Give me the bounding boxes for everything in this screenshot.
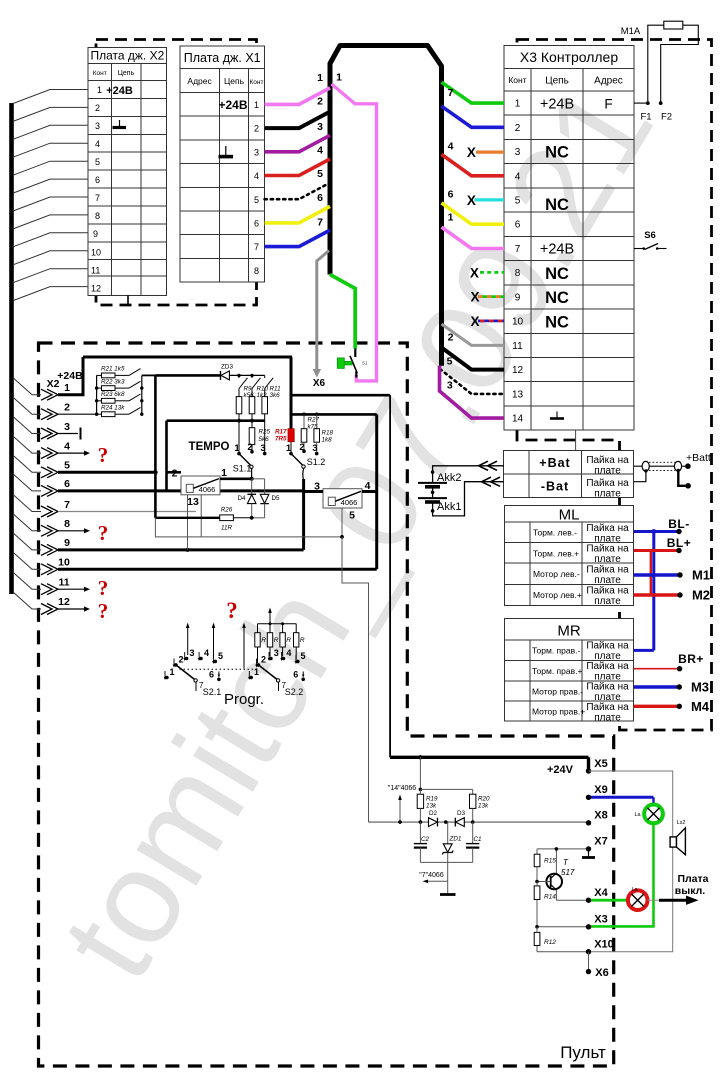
svg-text:?: ? <box>98 521 109 545</box>
diode ZD3 <box>221 363 234 380</box>
resistor R17 red <box>288 429 294 442</box>
svg-text:плате: плате <box>594 466 621 477</box>
S1.2 common vertical <box>302 479 305 550</box>
battery Akk1 <box>418 498 447 502</box>
svg-text:2: 2 <box>95 103 100 113</box>
svg-text:7: 7 <box>317 217 323 229</box>
wire X3 pin2 blue <box>442 106 505 127</box>
table X1 jog board <box>180 46 265 282</box>
resistor bank R21-R24 left rail <box>96 375 98 414</box>
wire X3 pin7 pink <box>442 227 505 248</box>
svg-text:X7: X7 <box>594 836 607 848</box>
resistor R9 <box>236 397 242 414</box>
svg-text:X6: X6 <box>313 378 326 389</box>
svg-text:F1: F1 <box>640 112 651 123</box>
speaker loop wire <box>589 771 673 952</box>
wire 4066 pin13 down <box>187 495 189 550</box>
wire BR+ red <box>634 652 704 671</box>
wire pin6 to S1.2 common <box>58 489 304 492</box>
svg-text:5: 5 <box>218 651 223 661</box>
svg-text:11: 11 <box>512 341 523 352</box>
+24V feed wire bottom <box>390 756 588 759</box>
svg-text:4066: 4066 <box>199 485 216 494</box>
svg-text:M2: M2 <box>692 588 710 603</box>
svg-text:2: 2 <box>261 655 266 665</box>
svg-text:6: 6 <box>95 175 100 185</box>
svg-text:ZD1: ZD1 <box>449 836 462 843</box>
svg-text:2: 2 <box>254 124 259 134</box>
pin11 arrow <box>58 588 84 590</box>
battery Akk2 <box>418 483 447 487</box>
svg-text:X: X <box>470 290 479 305</box>
zener ZD1 <box>447 822 449 844</box>
svg-text:M1: M1 <box>692 568 710 583</box>
svg-text:Пайка на: Пайка на <box>586 641 629 652</box>
svg-text:S1: S1 <box>362 361 368 366</box>
svg-text:NC: NC <box>545 314 569 332</box>
node X7 with ground <box>537 848 589 850</box>
svg-text:Плата: Плата <box>677 873 708 885</box>
right cable wire number labels <box>447 87 454 391</box>
svg-text:7R5: 7R5 <box>275 436 287 443</box>
svg-text:плате: плате <box>594 554 621 565</box>
svg-text:1: 1 <box>448 212 454 224</box>
svg-text:11: 11 <box>58 577 69 589</box>
svg-text:"14"4066: "14"4066 <box>388 785 416 792</box>
svg-text:2: 2 <box>317 96 323 108</box>
svg-text:Цепь: Цепь <box>224 76 245 86</box>
svg-text:6: 6 <box>209 670 214 680</box>
X2 pin number labels <box>58 382 70 608</box>
svg-text:1: 1 <box>64 382 70 394</box>
svg-text:D2: D2 <box>429 810 438 817</box>
node X9 blue wire <box>589 796 654 799</box>
wire pin9 <box>58 548 304 551</box>
svg-text:8: 8 <box>515 268 521 279</box>
svg-text:Адрес: Адрес <box>594 76 623 87</box>
svg-text:X8: X8 <box>594 810 607 822</box>
svg-text:?: ? <box>98 443 109 467</box>
svg-text:4066: 4066 <box>341 498 358 507</box>
table fill Bat <box>504 450 634 497</box>
arrow Plata vykl <box>648 899 662 901</box>
wire X3 pin8 green dashed stub <box>480 271 504 274</box>
left harness bar <box>9 103 14 594</box>
svg-text:3: 3 <box>190 648 195 658</box>
green wire X4 to lamp <box>591 899 628 902</box>
svg-text:X6: X6 <box>595 967 608 979</box>
svg-text:Пайка на: Пайка на <box>586 702 629 713</box>
green wire cable to S1 <box>330 275 355 349</box>
ZD3 line <box>155 374 220 377</box>
svg-text:R: R <box>261 637 266 644</box>
vertical V2 to pin6 line <box>165 421 168 491</box>
svg-text:2: 2 <box>448 332 454 344</box>
svg-text:Мотор лев.-: Мотор лев.- <box>533 569 580 579</box>
table MR <box>505 619 634 721</box>
ground symbol X2 row3 <box>113 120 127 128</box>
diode D4 <box>237 479 256 518</box>
resistor R20 <box>472 789 474 794</box>
svg-text:7: 7 <box>515 244 521 255</box>
resistor R24 <box>97 405 141 417</box>
wire BL+ red <box>634 536 692 595</box>
cable bundle outline <box>330 46 442 366</box>
fan wires to X2 table <box>13 90 88 301</box>
svg-text:5: 5 <box>301 651 306 661</box>
transistor T517 <box>535 847 575 900</box>
svg-text:R15: R15 <box>544 858 556 865</box>
switch S2.2 <box>248 648 306 697</box>
pin12 arrow <box>58 608 84 610</box>
wire X3 pin14 purple <box>440 366 505 418</box>
wire X3 pin6 yellow <box>442 203 505 224</box>
svg-text:BL-: BL- <box>668 517 690 531</box>
svg-text:1: 1 <box>254 667 259 677</box>
svg-text:1: 1 <box>515 99 521 110</box>
svg-text:3: 3 <box>317 121 323 133</box>
svg-text:X5: X5 <box>594 758 607 770</box>
wire pin7 thin <box>58 511 196 513</box>
svg-text:R: R <box>274 637 279 644</box>
svg-text:Плата дж. X2: Плата дж. X2 <box>91 49 165 63</box>
svg-text:Akk2: Akk2 <box>437 472 461 484</box>
svg-text:Конт: Конт <box>93 70 107 77</box>
table X3 controller <box>504 45 634 430</box>
svg-text:NC: NC <box>545 289 569 307</box>
pin8 arrow <box>58 530 84 532</box>
node X8 <box>586 820 591 825</box>
fuse M1A <box>621 21 699 103</box>
dashed border Pult panel <box>39 343 614 1066</box>
wire X3 pin9 green-orange stub <box>478 295 504 298</box>
svg-text:5: 5 <box>317 168 323 180</box>
svg-text:TEMPO: TEMPO <box>189 441 230 453</box>
resistor R25 <box>251 421 253 428</box>
svg-text:14: 14 <box>512 414 524 425</box>
programming resistors R x4 <box>255 608 305 664</box>
wire V1 to R26 <box>155 517 219 519</box>
svg-text:R27: R27 <box>308 417 320 424</box>
svg-text:4: 4 <box>254 171 259 181</box>
svg-text:6: 6 <box>448 189 454 201</box>
svg-text:+Batt.: +Batt. <box>686 452 714 464</box>
svg-text:12: 12 <box>58 596 70 608</box>
resistor R10 <box>249 397 255 414</box>
svg-text:F2: F2 <box>661 112 672 123</box>
X8 line <box>369 821 589 823</box>
wire pin5 <box>58 471 156 474</box>
svg-text:4: 4 <box>64 441 70 453</box>
svg-text:1: 1 <box>97 85 102 95</box>
svg-text:Торм. прав.-: Торм. прав.- <box>532 646 580 656</box>
capacitor C1 <box>472 822 474 843</box>
svg-text:3k6: 3k6 <box>270 392 281 399</box>
svg-text:+24В: +24В <box>218 98 247 112</box>
svg-text:S6: S6 <box>644 230 656 241</box>
red resistor R17 rail <box>290 357 293 429</box>
svg-text:выкл.: выкл. <box>675 885 705 897</box>
ground symbol X1 row3 <box>219 146 234 157</box>
branch to S1.1 pin3 <box>264 421 266 454</box>
svg-text:6: 6 <box>64 478 70 490</box>
svg-text:X3 Контроллер: X3 Контроллер <box>520 49 618 65</box>
svg-text:Мотор прав.+: Мотор прав.+ <box>532 707 585 717</box>
vertical rail V1 <box>154 375 157 517</box>
diode D2 <box>429 818 438 827</box>
svg-text:7: 7 <box>95 193 100 203</box>
switch S1.1 <box>233 442 267 479</box>
wire X1 pin4 red <box>265 159 330 176</box>
svg-text:6: 6 <box>317 192 323 204</box>
speaker Ls2 <box>670 820 685 855</box>
svg-text:1: 1 <box>170 667 175 677</box>
svg-text:517: 517 <box>561 868 575 877</box>
svg-text:плате: плате <box>594 596 621 607</box>
wire X3 pin12 black <box>442 348 505 370</box>
resistor R14 <box>534 886 540 900</box>
fan wires to X2 pins <box>13 378 41 609</box>
svg-text:4: 4 <box>448 141 454 153</box>
control line to 4066b <box>155 518 342 537</box>
long vertical to bottom +24V <box>389 395 391 757</box>
resistor R22 <box>97 378 141 390</box>
svg-text:Пульт: Пульт <box>560 1043 606 1062</box>
green wire lamp to X3 <box>591 823 654 926</box>
wire X3 pin13 dotted <box>440 369 504 394</box>
svg-text:S1.1: S1.1 <box>233 464 252 474</box>
svg-text:3: 3 <box>515 147 521 158</box>
svg-text:ML: ML <box>559 507 580 524</box>
svg-text:ZD3: ZD3 <box>221 363 233 370</box>
IC 4066 second <box>314 480 371 522</box>
node 14 4066 feed <box>419 757 421 789</box>
wire pin1 to +24V rail <box>58 357 83 395</box>
wire X1 pin5 dotted <box>265 183 330 200</box>
table X2 jog board <box>88 47 167 295</box>
svg-text:12: 12 <box>512 365 524 376</box>
wire M3 blue <box>634 680 709 695</box>
svg-text:10: 10 <box>512 317 524 328</box>
svg-text:X: X <box>470 314 479 329</box>
node F1 <box>646 101 650 105</box>
wire 4066 pin1 node <box>220 477 252 480</box>
svg-text:Плата дж. X1: Плата дж. X1 <box>184 51 261 65</box>
svg-text:NC: NC <box>545 265 569 283</box>
wire X3 pin11 gray <box>442 324 505 345</box>
svg-text:C2: C2 <box>421 836 430 843</box>
svg-text:R23 6k8: R23 6k8 <box>101 391 125 398</box>
bottom rail of cap group <box>420 861 472 863</box>
svg-text:5k6: 5k6 <box>259 436 270 443</box>
svg-text:5: 5 <box>515 196 521 207</box>
svg-text:11R: 11R <box>221 525 233 532</box>
svg-text:X: X <box>467 193 476 208</box>
wire X3 pin5 cyan stub <box>475 198 505 201</box>
resistor R11 <box>262 397 268 414</box>
wire X1 pin6 yellow <box>265 206 330 223</box>
svg-text:13k: 13k <box>426 803 437 810</box>
wire X3 pin1 green <box>442 82 505 103</box>
svg-text:BR+: BR+ <box>678 652 704 666</box>
wire X3 pin3 orange stub <box>476 151 504 154</box>
svg-text:Конт: Конт <box>250 79 264 86</box>
table fill X2 <box>88 47 167 295</box>
resistor R21 <box>97 366 141 378</box>
svg-text:4: 4 <box>204 648 209 658</box>
svg-text:R24 13k: R24 13k <box>101 405 125 412</box>
+24V top rail <box>83 356 292 359</box>
svg-text:3: 3 <box>274 648 279 658</box>
svg-text:NC: NC <box>545 196 569 214</box>
svg-text:?: ? <box>98 599 109 623</box>
svg-text:La: La <box>631 887 638 893</box>
dashed box around jog boards <box>96 40 257 306</box>
svg-text:R14: R14 <box>544 894 556 901</box>
svg-text:Akk1: Akk1 <box>437 501 461 513</box>
svg-text:8: 8 <box>254 266 259 276</box>
svg-text:2: 2 <box>515 123 521 134</box>
wire 4066 pin2 <box>167 471 182 474</box>
resistor bank right rail <box>141 375 143 414</box>
svg-text:Пайка на: Пайка на <box>586 586 629 597</box>
svg-text:плате: плате <box>594 489 621 500</box>
table fill MR <box>505 619 634 721</box>
svg-text:6: 6 <box>515 220 521 231</box>
svg-text:13: 13 <box>187 496 199 508</box>
svg-text:9: 9 <box>64 537 70 549</box>
svg-text:Цепь: Цепь <box>118 70 135 77</box>
resistor R23 <box>97 391 141 403</box>
svg-text:Пайка на: Пайка на <box>586 544 629 555</box>
node X10 <box>537 951 589 953</box>
up arrow 14 node <box>399 799 401 822</box>
svg-text:R18: R18 <box>322 430 334 437</box>
node F2 <box>659 101 663 105</box>
wire 4066 pin12 control <box>200 495 202 537</box>
wire 4066b pin3 <box>304 490 323 493</box>
gray wire to X6 <box>317 251 329 370</box>
svg-text:4: 4 <box>95 139 100 149</box>
svg-text:3: 3 <box>64 421 70 433</box>
table fill ML <box>505 506 634 606</box>
wire BL- blue <box>634 517 690 650</box>
capacitor C2 <box>419 822 421 843</box>
svg-text:Цепь: Цепь <box>545 76 569 87</box>
svg-text:7: 7 <box>254 242 259 252</box>
dashed box around X3 controller <box>517 40 712 731</box>
left cable wire number labels <box>317 72 342 229</box>
svg-text:R: R <box>300 637 305 644</box>
switch S1 <box>337 349 368 378</box>
svg-text:S2.1: S2.1 <box>203 687 222 697</box>
wire X1 pin7 blue <box>265 230 330 247</box>
svg-text:X4: X4 <box>594 887 608 899</box>
wire pin2 to resistor bank <box>58 413 97 415</box>
svg-text:2: 2 <box>179 655 184 665</box>
svg-text:F: F <box>604 97 612 112</box>
switch S2.1 <box>164 623 223 698</box>
svg-text:Ls2: Ls2 <box>677 820 686 826</box>
node X6 bottom <box>588 952 590 972</box>
svg-text:5: 5 <box>349 510 355 522</box>
svg-text:1: 1 <box>317 72 323 84</box>
resistor R19 <box>419 789 421 794</box>
svg-text:Мотор прав.-: Мотор прав.- <box>532 687 583 697</box>
svg-text:M1A: M1A <box>621 26 641 37</box>
contact R9 <box>239 375 248 396</box>
svg-text:2: 2 <box>64 402 70 414</box>
wire M4 red <box>634 699 710 714</box>
svg-text:M3: M3 <box>691 680 709 695</box>
svg-text:12: 12 <box>91 284 101 294</box>
wire battery to Bat table <box>433 466 504 516</box>
svg-text:4: 4 <box>286 648 291 658</box>
svg-text:S1.2: S1.2 <box>307 457 326 467</box>
svg-text:10: 10 <box>91 248 101 258</box>
dots on node line <box>237 374 240 377</box>
svg-text:9: 9 <box>515 292 521 303</box>
svg-text:Пайка на: Пайка на <box>586 565 629 576</box>
table fill X3 <box>504 45 634 430</box>
svg-text:Пайка на: Пайка на <box>586 661 629 672</box>
svg-text:10: 10 <box>58 557 70 569</box>
svg-text:8: 8 <box>95 211 100 221</box>
table fill X1 <box>180 46 265 282</box>
pin3 stub <box>58 433 78 435</box>
wire stub X3 to Bat table <box>575 430 577 450</box>
svg-text:R21 1k5: R21 1k5 <box>101 366 125 373</box>
svg-text:?: ? <box>226 598 238 623</box>
contact R10 <box>252 375 261 396</box>
wire X3 pin4 red <box>442 154 505 175</box>
svg-text:R22 3k3: R22 3k3 <box>101 378 125 385</box>
pink wire inside cable to S1 <box>332 84 377 381</box>
node X4 <box>556 899 588 901</box>
wire BRminus link blue <box>634 649 654 652</box>
control line down to low circuit <box>342 537 369 822</box>
node X3 <box>537 926 589 928</box>
wire X1 pin3 purple <box>265 135 330 152</box>
svg-text:R20: R20 <box>478 796 490 803</box>
svg-text:R17: R17 <box>275 429 287 436</box>
svg-text:5: 5 <box>64 460 70 472</box>
svg-text:5: 5 <box>254 195 259 205</box>
dotted link line <box>180 668 259 670</box>
svg-text:4: 4 <box>515 171 521 182</box>
table Bat <box>504 450 634 497</box>
wire 4066b pin4 <box>362 490 377 493</box>
svg-text:D4: D4 <box>237 495 246 502</box>
svg-text:6: 6 <box>254 219 259 229</box>
lower rail under R9-R11 <box>167 419 265 422</box>
svg-text:+24V: +24V <box>547 764 574 776</box>
lamp La green <box>644 805 663 824</box>
node X5 <box>587 757 590 771</box>
svg-text:-Bat: -Bat <box>541 480 569 494</box>
svg-text:9: 9 <box>93 229 98 239</box>
svg-text:13: 13 <box>512 389 524 400</box>
resistor R15 <box>536 849 538 854</box>
svg-text:"7"4066: "7"4066 <box>419 872 444 879</box>
contact R11 <box>265 375 274 396</box>
svg-text:6: 6 <box>293 670 298 680</box>
switch S6 <box>634 230 667 250</box>
resistor R26 <box>220 515 234 521</box>
svg-text:X3: X3 <box>594 913 607 925</box>
svg-text:плате: плате <box>594 713 621 724</box>
resistor R12 <box>534 932 540 945</box>
